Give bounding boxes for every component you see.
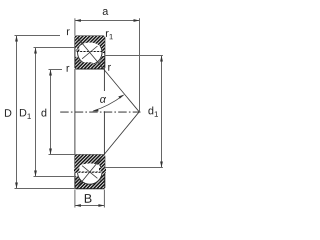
d1 dimension line [161, 56, 163, 168]
D label [5, 109, 11, 116]
a right extension [139, 18, 141, 112]
left face line [74, 69, 76, 155]
B right arrow [98, 204, 104, 207]
d1 top extension [105, 55, 163, 57]
d1 bottom arrow [160, 162, 163, 168]
alpha arc left arrowhead [92, 109, 98, 112]
d bottom arrow [49, 149, 52, 155]
d top arrow [49, 70, 52, 76]
D1 bottom extension [34, 176, 75, 178]
B dimension line [75, 205, 105, 207]
top section shoulder lines [75, 45, 105, 63]
contact line top [78, 38, 139, 112]
D1 top extension [34, 47, 75, 49]
d1 top arrow [160, 56, 163, 62]
d dimension line [50, 70, 52, 155]
B right extension [103, 190, 105, 208]
r label mid left [67, 66, 70, 72]
D top extension [15, 35, 61, 37]
r label top left [67, 29, 70, 35]
alpha arc right arrowhead [118, 95, 124, 99]
a left extension [74, 18, 76, 36]
axis centerline [60, 111, 140, 113]
B label [85, 194, 92, 203]
D1 label [20, 109, 31, 119]
a right arrow [134, 19, 140, 22]
alpha label [100, 97, 106, 103]
r label right [108, 65, 111, 71]
D dimension line [16, 36, 18, 189]
top section hatching [74, 35, 106, 70]
d1 bottom extension [105, 167, 163, 169]
ball top [78, 40, 102, 64]
B left extension [74, 190, 76, 208]
D1 top arrow [34, 48, 37, 54]
d bottom extension [49, 154, 75, 156]
d label [41, 109, 46, 117]
D1 dimension line [35, 48, 37, 177]
d top extension [49, 69, 63, 71]
a left arrow [75, 19, 81, 22]
contact line bottom [78, 112, 139, 186]
bottom section hatching [74, 154, 106, 190]
outer race overlapping ball apex [74, 35, 106, 52]
ball cross line top [82, 46, 97, 59]
B left arrow [75, 204, 81, 207]
bottom section outline [75, 155, 105, 189]
r1 label top right [106, 31, 113, 39]
D1 bottom arrow [34, 171, 37, 177]
top section outline [75, 36, 105, 69]
a label [103, 9, 109, 15]
ball bottom [78, 160, 102, 184]
D bottom extension [15, 188, 75, 190]
D top arrow [15, 36, 18, 42]
d1 label [148, 106, 158, 116]
alpha arc [93, 95, 123, 111]
a dimension line [75, 20, 140, 22]
D bottom arrow [15, 183, 18, 189]
inner ring band edge over ball bottom-left [75, 62, 92, 68]
inner race overlapping bottom ball apex [74, 154, 106, 173]
right face line [103, 69, 105, 91]
ball cross line bottom [82, 166, 97, 179]
bottom section shoulder lines [75, 162, 105, 180]
